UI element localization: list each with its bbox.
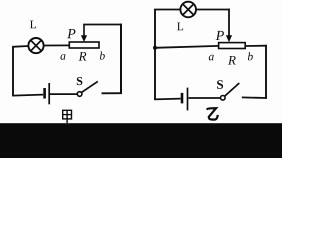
wire: slider to top-right corner (甲) (83, 24, 121, 26)
label S (甲) (77, 77, 83, 85)
wire: battery to switch (乙) (189, 97, 221, 99)
label R (甲) (79, 52, 87, 61)
switch S (甲) (77, 81, 98, 96)
background paper (0, 0, 282, 158)
label L (乙 lamp) (177, 23, 183, 31)
wire: right vertical (甲) (120, 24, 122, 94)
slider arrow P (甲) (81, 25, 87, 43)
label 乙 (207, 108, 218, 119)
wire: left vertical (乙) (154, 9, 156, 100)
wire: left vertical (甲) (12, 47, 14, 96)
junction node (乙) (153, 46, 157, 50)
label b (甲) (100, 52, 105, 60)
wire: junction to rheostat (乙) (155, 46, 219, 48)
label b (乙) (248, 52, 253, 60)
battery cell (甲) (45, 83, 50, 104)
wire: top horizontal left of lamp (乙) (154, 9, 180, 11)
switch S (乙) (221, 83, 240, 100)
wire: battery to switch (甲) (50, 93, 77, 95)
label 甲 (63, 110, 72, 123)
label a (乙) (209, 55, 214, 61)
label R (乙) (228, 56, 236, 65)
wire: bottom-right horizontal to switch (甲) (102, 92, 122, 94)
rheostat R body (乙) (219, 43, 246, 49)
bottom black band (0, 123, 282, 158)
wire: vertical down to slider (乙) (228, 9, 230, 37)
wire: rheostat to right vertical (乙) (245, 45, 267, 47)
wire: top horizontal right of lamp (乙) (196, 9, 230, 11)
label P (乙) (216, 31, 224, 40)
wire: right vertical (乙) (265, 45, 267, 99)
wire: top-left horizontal to lamp (甲) (12, 45, 28, 48)
label a (甲) (60, 54, 65, 60)
lamp L (乙) (180, 2, 196, 18)
label P (甲) (67, 29, 75, 38)
battery cell (乙) (182, 88, 188, 111)
wire: bottom-left horizontal to battery (甲) (12, 95, 43, 96)
wire: bottom-left horizontal to battery (乙) (154, 98, 180, 101)
label L (甲 lamp) (30, 21, 36, 29)
lamp L (甲) (28, 38, 43, 53)
wire: bottom-right horizontal to switch (乙) (242, 96, 267, 99)
label S (乙) (217, 80, 223, 89)
slider arrow P (乙) (226, 35, 232, 42)
rheostat R body (甲) (69, 42, 99, 48)
wire: lamp to rheostat (甲) (44, 44, 70, 46)
